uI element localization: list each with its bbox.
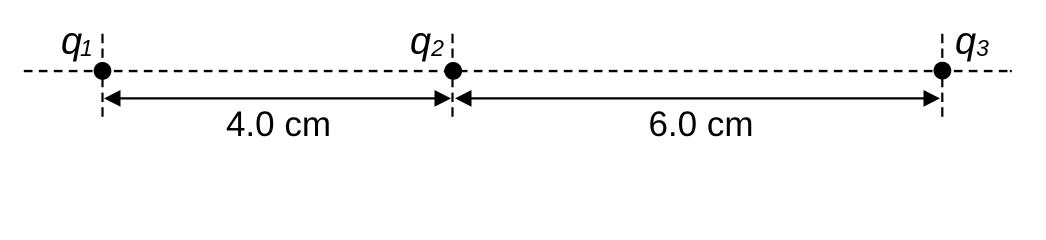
horizontal dashed axis line <box>24 70 1012 72</box>
vertical dashed guide line at q1 <box>101 34 103 118</box>
dimension arrowhead right (at q3) <box>924 90 941 107</box>
svg-text:q1: q1 <box>61 20 93 62</box>
vertical dashed guide line at q2 <box>451 34 453 118</box>
svg-text:6.0 cm: 6.0 cm <box>648 105 753 144</box>
dimension line q2-q3 shaft <box>468 97 927 99</box>
charge q3 dot <box>934 62 952 80</box>
svg-text:4.0 cm: 4.0 cm <box>226 105 331 144</box>
svg-text:q3: q3 <box>955 20 989 62</box>
charge q1 dot <box>94 62 112 80</box>
vertical dashed guide line at q3 <box>941 34 943 118</box>
dimension line q1-q2 shaft <box>117 97 438 99</box>
charge q2 dot <box>444 62 462 80</box>
tiny end dash of axis line <box>1010 70 1012 72</box>
svg-text:q2: q2 <box>410 20 444 62</box>
dimension arrowhead left (at q2) <box>455 90 472 107</box>
dimension arrowhead left (at q1) <box>104 90 121 107</box>
dimension arrowhead right (at q2) <box>435 90 452 107</box>
